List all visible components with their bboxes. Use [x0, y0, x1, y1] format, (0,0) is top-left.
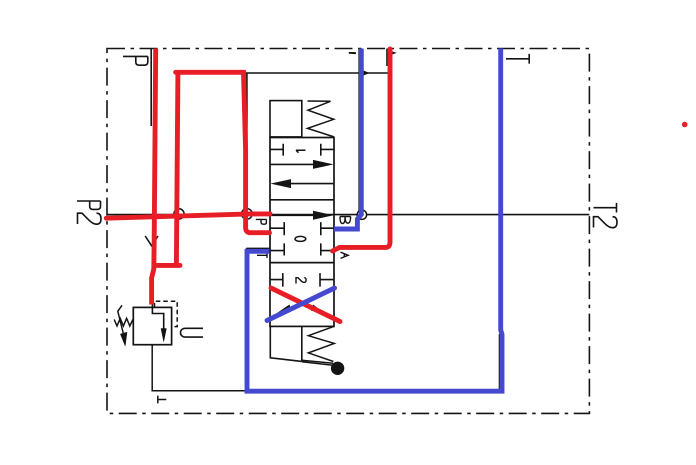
relief valve RV1: internal flow arrow [152, 304, 163, 329]
valve V1: bottom spring [308, 326, 334, 361]
wire: red riser from P to relief valve [152, 49, 156, 305]
relief valve RV1: adjustment arrow [118, 305, 123, 333]
flow arrow (open V) on P drop line [145, 236, 158, 246]
wire: red pi-shaped line to valve P port [154, 72, 270, 265]
valve V1: cell0 left-top blocked port [270, 222, 284, 235]
wire: tank return thin line under right blue riser [498, 334, 500, 391]
valve V1: detent ball [331, 362, 344, 375]
valve V1: cell0 right-top blocked port [321, 222, 334, 235]
valve V1: top spring [308, 101, 335, 137]
label 2 (position 2) [296, 278, 306, 284]
hop circle at B line crossing [357, 210, 366, 219]
wire: red P2 supply line (horizontal) [106, 214, 270, 218]
node T label (drain) [158, 396, 167, 404]
wire: thin line under B riser [358, 49, 360, 212]
wire: vertical black under red P branch [246, 73, 248, 231]
wire: thin line under A riser [386, 49, 388, 67]
node T2 label (right edge) [594, 203, 618, 228]
wire: blue X overlay in cell2 [267, 288, 335, 321]
flow tick near A riser top [391, 52, 396, 54]
label B (valve port) [340, 217, 351, 224]
valve V1: top actuator box [270, 101, 302, 137]
wire: top distribution line y=73 [246, 72, 391, 74]
valve V1: row line 0/2 [270, 262, 334, 264]
valve V1: cell2 right blocked port [320, 273, 334, 287]
frame border (dash-dot enclosure) [107, 49, 589, 414]
valve V1: cell1 right blocked port [321, 144, 334, 156]
node P2 label (left edge) [77, 201, 101, 224]
label P (valve port) [256, 219, 267, 224]
red marker dot (right margin) [682, 122, 688, 128]
relief valve RV1: pilot dashed box [155, 301, 178, 326]
relief valve RV1: body box [133, 307, 171, 344]
valve V1: bottom actuator box [270, 326, 302, 361]
valve V1: body outline [270, 138, 334, 327]
wire: pressure feed thin line under red riser [150, 49, 152, 127]
label 1 (position 1) [296, 150, 306, 153]
valve V1: cell1 arrow left [289, 183, 334, 185]
wire: blue T port line to bottom and right riser [247, 49, 502, 392]
wire: red A port line [333, 49, 391, 251]
wire: red X overlay in cell2 [271, 288, 340, 322]
valve V1: cell2 crossed arrow 1 [283, 291, 330, 312]
wire: blue B port line to top border [334, 49, 361, 230]
wire: relief drain line [152, 345, 247, 391]
valve V1: cell2 left blocked port [270, 273, 283, 287]
hop circle at red pi-leg crossing [174, 209, 184, 219]
node P label (top left) [123, 56, 148, 65]
label A (valve port) [341, 252, 349, 258]
valve V1: cell1 left blocked port [270, 144, 283, 156]
hop circle at P branch crossing [242, 209, 253, 220]
main centerline P2-T2 [107, 214, 589, 216]
label T (valve port) [257, 253, 267, 258]
wire: thin line under T port stub [246, 248, 270, 256]
valve V1: cell0 right-bottom blocked port [321, 243, 334, 255]
valve V1: lever to detent [302, 360, 333, 365]
valve V1: cell2 crossed arrow 2 [276, 290, 316, 309]
label 0 (position 0) [295, 236, 306, 241]
valve V1: cell1 arrow right [270, 163, 315, 165]
valve V1: row line 1/0 [270, 199, 334, 201]
flow tick near T port top [349, 52, 356, 54]
valve V1: cell0 left-bottom blocked port [270, 243, 284, 255]
node T label (top right) [506, 54, 529, 64]
label U (relief valve) [181, 328, 204, 337]
flow arrow on top distribution line [364, 71, 369, 75]
valve V1: center arrow on bypass line [270, 214, 315, 216]
relief valve RV1: adjustment spring [114, 318, 133, 326]
